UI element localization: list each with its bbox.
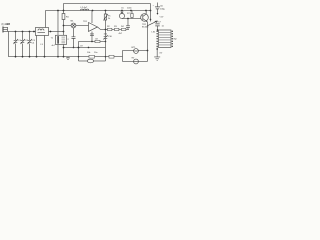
wire x29 down — [28, 31, 30, 56]
wire x63 resistor leads — [58, 10, 64, 35]
wire top supply rail — [63, 2, 150, 4]
wire ground bus y57 — [8, 56, 122, 58]
svg-text:100n: 100n — [127, 7, 132, 9]
svg-text:C6: C6 — [160, 5, 164, 7]
capacitor C9 electrolytic oval — [87, 59, 93, 63]
node rail dots — [57, 10, 151, 21]
wire y18 base feed — [122, 17, 141, 19]
svg-text:(1) AER: (1) AER — [1, 23, 10, 26]
resistor R1 — [62, 13, 65, 19]
capacitor C6 electrolytic — [155, 2, 160, 14]
amplifier A1 triangle — [88, 22, 97, 31]
node dot x63 y25 — [63, 25, 65, 27]
arrow coupling — [147, 21, 158, 26]
node bus dots — [15, 56, 65, 58]
wire x15 down — [14, 31, 16, 56]
svg-text:R4: R4 — [121, 26, 125, 28]
svg-text:C4: C4 — [31, 42, 35, 44]
svg-text:P1: P1 — [108, 15, 111, 17]
inductor L1 ferrite rod in can — [35, 27, 48, 35]
capacitor C5 — [126, 18, 130, 29]
wire collector x92 — [91, 10, 93, 23]
cell BT2 — [134, 59, 139, 64]
wire amp output — [97, 27, 128, 30]
arrowhead down — [156, 13, 158, 15]
svg-text:R1: R1 — [66, 16, 70, 18]
svg-text:0V: 0V — [159, 52, 162, 54]
svg-text:10k: 10k — [87, 52, 91, 54]
wire box pins — [36, 31, 63, 56]
svg-text:4k7: 4k7 — [118, 33, 122, 35]
svg-text:9V: 9V — [131, 57, 134, 59]
wire x57 drop — [57, 10, 59, 35]
svg-text:8Ω: 8Ω — [173, 38, 176, 40]
wire x8 down — [7, 31, 9, 56]
capacitor C4 plates — [90, 34, 94, 36]
node input dots — [15, 31, 31, 33]
ground — [66, 57, 70, 60]
lamp LA1 — [121, 10, 123, 13]
svg-text:10n: 10n — [94, 52, 98, 54]
mixer X1 circle — [71, 23, 76, 28]
capacitor C1 trimmer — [13, 39, 18, 44]
wire left side — [121, 50, 123, 61]
potentiometer P1 — [104, 10, 106, 29]
inductor L2 choke on rail — [80, 9, 88, 10]
svg-text:+: + — [152, 5, 154, 7]
svg-text:T1: T1 — [50, 37, 53, 39]
wire y60 bottom branch — [78, 60, 87, 62]
wire amp emitter down — [91, 31, 93, 41]
svg-text:C10: C10 — [108, 36, 113, 38]
wire emitter long drop — [146, 22, 148, 62]
wire x78 drop — [77, 41, 79, 61]
wire speaker to ground — [156, 47, 158, 57]
capacitor C3 trimmer — [27, 39, 32, 44]
svg-text:R2: R2 — [107, 26, 111, 28]
wire bottom branch — [122, 60, 147, 62]
svg-text:2: 2 — [67, 39, 69, 41]
capacitor C8 — [95, 40, 100, 42]
svg-text:100µ: 100µ — [160, 8, 166, 10]
resistor R6 — [109, 55, 114, 58]
wire y25 — [63, 24, 88, 26]
connector J1 aerial input — [2, 26, 4, 32]
svg-text:R3: R3 — [114, 26, 118, 28]
wire second supply rail — [45, 9, 150, 11]
wire y41 feedback — [78, 40, 105, 42]
resistor R3 series — [114, 28, 118, 30]
wire top branch — [122, 49, 147, 51]
svg-text:BC548: BC548 — [142, 26, 149, 28]
wire T1 bottom leads — [58, 44, 64, 56]
wire x63 riser to top rail — [62, 3, 64, 10]
wire x105 long drop — [104, 29, 106, 61]
resistor R5 — [89, 55, 95, 58]
wire y46 — [63, 46, 105, 48]
transformer T1 IF can — [55, 35, 66, 44]
resistor R4 series — [121, 28, 125, 30]
ground — [154, 57, 160, 61]
svg-text:4n7: 4n7 — [51, 45, 55, 47]
capacitor C2 trimmer — [20, 39, 25, 44]
svg-text:C7: C7 — [158, 21, 162, 23]
capacitor C10 — [103, 35, 107, 39]
wire rail drop left — [44, 10, 46, 27]
wire x22 down — [21, 31, 23, 56]
svg-text:LS1: LS1 — [151, 31, 156, 33]
cell BT1 — [134, 49, 139, 54]
svg-text:5k: 5k — [108, 18, 111, 20]
svg-text:L2 4µ7: L2 4µ7 — [80, 7, 88, 9]
transistor TR2 — [141, 14, 149, 22]
wire input bus y31 — [7, 30, 35, 32]
capacitor C11 mixer output — [71, 28, 75, 48]
svg-text:TR1: TR1 — [83, 21, 88, 23]
svg-text:M1: M1 — [70, 20, 74, 22]
wire right riser x150 — [149, 3, 151, 21]
resistor R2 series — [107, 28, 111, 30]
svg-text:L3: L3 — [40, 44, 43, 46]
svg-text:C5: C5 — [121, 7, 125, 9]
svg-text:1n: 1n — [161, 25, 164, 27]
svg-text:≈1V: ≈1V — [159, 15, 163, 18]
